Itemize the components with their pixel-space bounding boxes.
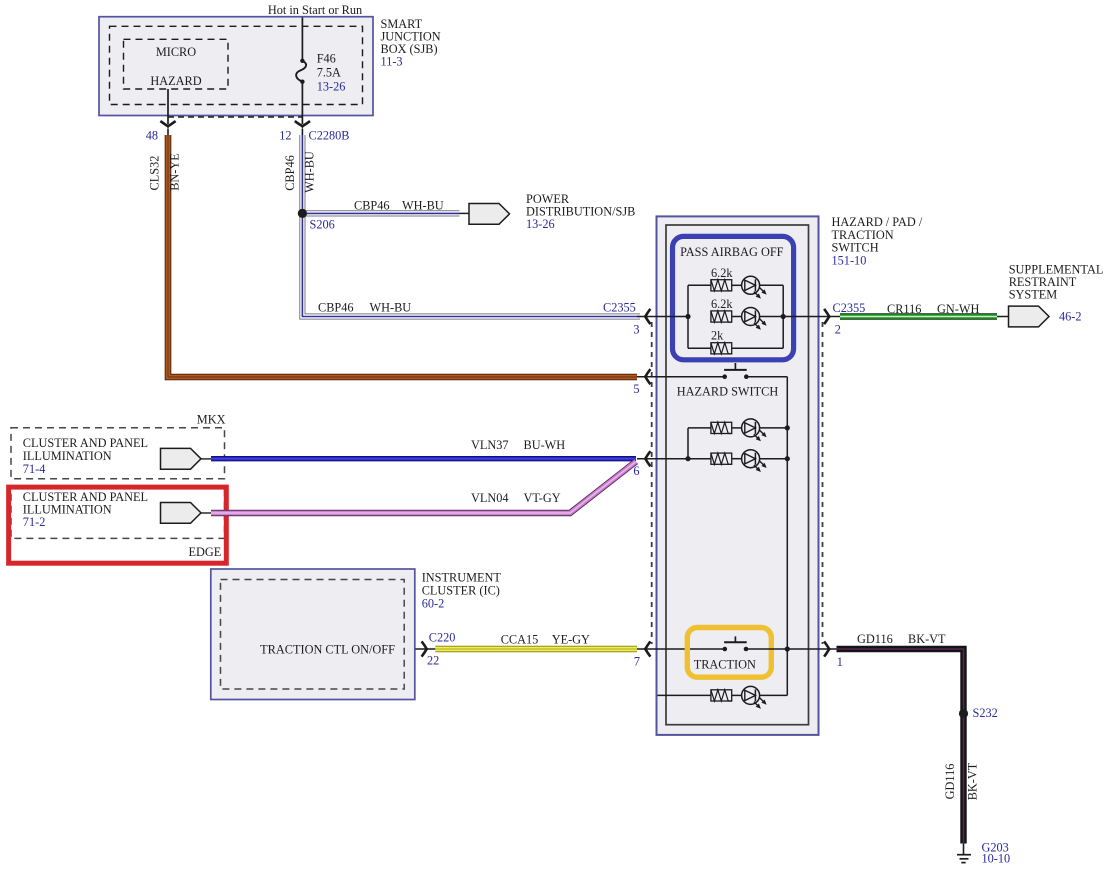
- svg-text:7.5A: 7.5A: [317, 66, 341, 80]
- svg-text:46-2: 46-2: [1059, 310, 1082, 324]
- svg-text:CBP46: CBP46: [318, 301, 354, 315]
- svg-text:71-4: 71-4: [23, 462, 46, 476]
- svg-text:6.2k: 6.2k: [711, 266, 733, 280]
- svg-text:WH-BU: WH-BU: [402, 199, 444, 213]
- svg-text:VLN04: VLN04: [471, 491, 509, 505]
- svg-text:C2280B: C2280B: [309, 129, 350, 143]
- svg-text:S232: S232: [973, 706, 998, 720]
- svg-text:EDGE: EDGE: [189, 545, 222, 559]
- svg-text:6.2k: 6.2k: [711, 297, 733, 311]
- svg-text:C2355: C2355: [603, 301, 636, 315]
- svg-text:S206: S206: [310, 218, 335, 232]
- svg-text:11-3: 11-3: [381, 55, 403, 69]
- svg-text:48: 48: [146, 129, 158, 143]
- svg-text:7: 7: [634, 654, 640, 668]
- svg-text:22: 22: [427, 654, 439, 668]
- svg-text:WH-BU: WH-BU: [370, 301, 412, 315]
- svg-text:CBP46: CBP46: [354, 199, 390, 213]
- svg-text:C220: C220: [429, 631, 456, 645]
- svg-text:2: 2: [835, 323, 841, 337]
- svg-text:MKX: MKX: [197, 413, 226, 427]
- svg-text:C2355: C2355: [833, 301, 866, 315]
- svg-text:10-10: 10-10: [982, 852, 1011, 866]
- svg-text:BU-WH: BU-WH: [524, 438, 566, 452]
- svg-text:PASS AIRBAG OFF: PASS AIRBAG OFF: [680, 245, 784, 259]
- svg-text:WH-BU: WH-BU: [302, 151, 316, 193]
- svg-text:3: 3: [633, 323, 639, 337]
- svg-text:GD116: GD116: [857, 632, 893, 646]
- svg-text:CCA15: CCA15: [501, 632, 539, 646]
- svg-text:BK-VT: BK-VT: [966, 762, 980, 800]
- svg-text:TRACTION: TRACTION: [694, 658, 756, 672]
- svg-text:TRACTION CTL ON/OFF: TRACTION CTL ON/OFF: [260, 643, 395, 657]
- svg-text:CLS32: CLS32: [148, 156, 162, 191]
- svg-text:BN-YE: BN-YE: [167, 153, 181, 191]
- svg-text:CR116: CR116: [887, 302, 921, 316]
- svg-text:2k: 2k: [711, 329, 724, 343]
- svg-text:SYSTEM: SYSTEM: [1009, 288, 1058, 302]
- svg-text:CBP46: CBP46: [283, 155, 297, 191]
- svg-text:13-26: 13-26: [317, 80, 346, 94]
- svg-text:MICRO: MICRO: [156, 45, 196, 59]
- svg-text:CLUSTER (IC): CLUSTER (IC): [422, 584, 500, 598]
- svg-text:HAZARD SWITCH: HAZARD SWITCH: [677, 385, 779, 399]
- svg-text:12: 12: [279, 129, 291, 143]
- svg-text:VT-GY: VT-GY: [524, 491, 561, 505]
- svg-text:5: 5: [633, 382, 639, 396]
- svg-text:Hot in Start or Run: Hot in Start or Run: [268, 3, 362, 17]
- svg-text:BK-VT: BK-VT: [908, 632, 946, 646]
- svg-text:GD116: GD116: [943, 764, 957, 800]
- svg-text:GN-WH: GN-WH: [937, 302, 979, 316]
- svg-text:INSTRUMENT: INSTRUMENT: [422, 570, 502, 584]
- svg-text:YE-GY: YE-GY: [552, 632, 590, 646]
- svg-text:13-26: 13-26: [526, 217, 555, 231]
- svg-text:F46: F46: [317, 52, 336, 66]
- svg-text:151-10: 151-10: [832, 253, 867, 267]
- svg-text:VLN37: VLN37: [471, 438, 509, 452]
- svg-text:HAZARD: HAZARD: [150, 74, 201, 88]
- svg-text:71-2: 71-2: [23, 515, 46, 529]
- svg-text:CLUSTER AND PANEL: CLUSTER AND PANEL: [23, 436, 148, 450]
- svg-text:1: 1: [837, 655, 843, 669]
- svg-text:60-2: 60-2: [422, 597, 445, 611]
